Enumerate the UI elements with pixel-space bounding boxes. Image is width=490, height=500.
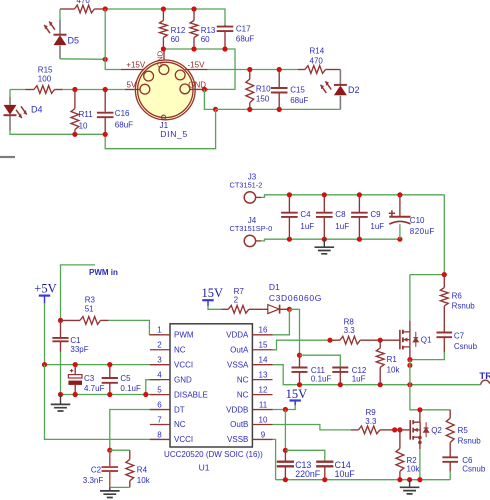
node junction top bus at 470	[103, 6, 108, 11]
pin lead Q2 source	[419, 438, 421, 450]
capacitor C11 0.1uF	[299, 355, 301, 367]
capacitor C1 33pF	[60, 320, 62, 337]
node junction C3 bottom	[73, 392, 78, 397]
node junction Q2 source dot1	[418, 436, 422, 440]
node junction C11 bottom	[297, 382, 302, 387]
svg-text:GND: GND	[156, 50, 165, 67]
node junction Q1 source TR	[407, 382, 412, 387]
svg-text:C15: C15	[290, 86, 305, 95]
svg-text:2: 2	[234, 295, 239, 304]
ground at C1	[60, 395, 62, 405]
svg-text:150: 150	[256, 94, 270, 103]
pin 8 VCCI	[150, 438, 170, 440]
node junction GND pin right	[202, 87, 207, 92]
svg-text:60: 60	[171, 35, 180, 44]
capacitor C8 1uF	[323, 195, 325, 213]
svg-text:VCCI: VCCI	[174, 435, 193, 444]
pin 5 DISABLE	[150, 394, 170, 396]
wire to +15V pin of J1	[105, 59, 121, 69]
node junction R2 top / gate Q2	[397, 427, 402, 432]
svg-text:NC: NC	[237, 390, 249, 399]
capacitor C6 Csnub	[442, 457, 458, 462]
pin 6 DT	[150, 409, 170, 411]
resistor R10 150	[249, 70, 251, 80]
resistor R6 Rsnub	[443, 275, 445, 288]
wire TR bus	[273, 365, 481, 385]
capacitor C9 1uF	[358, 195, 360, 213]
wire +15V top bus	[105, 9, 225, 26]
node junction R8/R1/gate Q1	[378, 338, 383, 343]
svg-text:PWM in: PWM in	[89, 268, 118, 277]
pin notch bottom J1	[162, 115, 166, 119]
node junction R10 top	[247, 67, 252, 72]
svg-text:1uF: 1uF	[335, 222, 349, 231]
node junction R13 bottom	[191, 46, 196, 51]
wire GND bus C1/C3/C5	[61, 380, 161, 395]
svg-text:NC: NC	[237, 375, 249, 384]
pin lead -15V J1	[185, 69, 208, 71]
wire bottom GND bus	[276, 479, 451, 481]
svg-text:1uF: 1uF	[370, 222, 384, 231]
node junction R9 right	[392, 427, 397, 432]
node junction Q1 source	[407, 357, 412, 362]
svg-text:C3: C3	[84, 374, 95, 383]
pin 1 PWM	[150, 334, 170, 336]
svg-text:11: 11	[259, 400, 268, 409]
svg-text:15V: 15V	[286, 387, 308, 401]
svg-text:CT3151SP-0: CT3151SP-0	[230, 224, 273, 233]
node junction C10 top	[397, 192, 402, 197]
pin 12 NC	[253, 394, 273, 396]
svg-text:R11: R11	[79, 110, 94, 119]
node junction +5V riser	[42, 362, 47, 367]
pin 13 NC	[253, 379, 273, 381]
svg-text:1uF: 1uF	[300, 222, 314, 231]
pin 16 VDDA	[253, 334, 273, 336]
svg-text:CT3151-2: CT3151-2	[230, 180, 263, 189]
transistor Q1	[400, 330, 418, 350]
svg-text:51: 51	[85, 304, 94, 313]
svg-text:C9: C9	[370, 210, 381, 219]
svg-text:Q1: Q1	[421, 336, 432, 345]
svg-text:0.1uF: 0.1uF	[120, 384, 141, 393]
svg-text:3.3: 3.3	[365, 417, 377, 426]
pin 7 NC	[150, 424, 170, 426]
node junction C3 top	[73, 362, 78, 367]
svg-text:U1: U1	[199, 463, 210, 473]
svg-text:68uF: 68uF	[236, 35, 254, 44]
svg-text:VSSA: VSSA	[227, 360, 249, 369]
svg-text:Csnub: Csnub	[462, 465, 486, 474]
LED D2	[339, 70, 341, 110]
wire J3 to cap bus top	[261, 195, 444, 198]
pin lead GND right J1	[190, 88, 208, 90]
pin lead Q2 drain	[419, 410, 421, 422]
pin 3 VCCI	[150, 364, 170, 366]
wire Q2 source to GND bus	[419, 449, 421, 480]
resistor R3 51	[58, 318, 63, 323]
node junction D1 cathode	[287, 307, 292, 312]
node junction R1 bottom	[378, 382, 383, 387]
pin circle upper-left +15V	[144, 71, 154, 81]
connector J4 CT3151SP-0	[244, 235, 255, 246]
svg-text:68uF: 68uF	[290, 96, 308, 105]
wire DT line	[110, 410, 160, 451]
node junction R2 bottom	[397, 477, 402, 482]
svg-text:33pF: 33pF	[70, 345, 88, 354]
ground at C2	[109, 487, 111, 491]
svg-text:8: 8	[157, 430, 162, 439]
pin 9 VSSB	[253, 438, 273, 440]
ground at bottom GND bus	[409, 480, 411, 488]
svg-text:R8: R8	[344, 317, 355, 326]
svg-text:100: 100	[38, 74, 52, 83]
svg-text:C7: C7	[454, 331, 465, 340]
node junction C10 bottom	[397, 237, 402, 242]
wire Q1 drain from R6 junction	[409, 275, 411, 321]
wire VCCI bus +5V	[45, 364, 161, 366]
node junction pin11 15V	[283, 407, 288, 412]
capacitor C3 4.7uF polarized	[74, 365, 76, 375]
svg-text:1uF: 1uF	[352, 375, 366, 384]
svg-text:Csnub: Csnub	[454, 342, 478, 351]
svg-text:68uF: 68uF	[115, 121, 133, 130]
node junction C16 top / 5V	[103, 87, 108, 92]
pin 1 circle top GND	[159, 65, 169, 75]
wire C13/C14 top link	[285, 450, 324, 461]
svg-text:9: 9	[261, 430, 266, 439]
pin lead +15V J1	[121, 69, 144, 71]
svg-text:C10: C10	[410, 216, 425, 225]
wire Q1 source to TR bus	[409, 360, 411, 385]
svg-text:D5: D5	[68, 36, 80, 46]
node junction C13 top	[283, 448, 288, 453]
pin 15 OutA	[253, 349, 273, 351]
wire D1 to C11/C12 top	[289, 309, 299, 355]
svg-text:15: 15	[259, 341, 268, 350]
svg-text:R14: R14	[310, 47, 325, 56]
svg-text:10uF: 10uF	[335, 469, 356, 479]
svg-text:R3: R3	[85, 295, 96, 304]
capacitor C5 0.1uF	[109, 365, 111, 378]
wire +5V down to pin8 VCCI	[45, 365, 161, 440]
svg-text:D2: D2	[348, 85, 360, 95]
pin lead Q1 source	[409, 347, 411, 360]
node junction C15 bottom	[277, 107, 282, 112]
svg-text:D4: D4	[31, 105, 43, 115]
capacitor C17 68uF	[224, 25, 226, 27]
node junction C13 bottom	[283, 477, 288, 482]
wire pin10 OutB to R9	[273, 425, 352, 430]
pin 4 GND	[150, 379, 170, 381]
svg-text:3.3: 3.3	[344, 326, 356, 335]
resistor R1 10k	[379, 340, 381, 348]
resistor R5 Rsnub	[449, 410, 451, 418]
svg-text:16: 16	[259, 326, 268, 335]
wire D5 to +15V pin	[60, 58, 105, 61]
svg-text:VDDA: VDDA	[226, 331, 249, 340]
capacitor C15 68uF	[278, 70, 280, 88]
svg-text:10k: 10k	[137, 476, 151, 485]
node junction DISABLE tie	[143, 392, 148, 397]
LED D4	[9, 90, 11, 98]
svg-text:R10: R10	[256, 84, 271, 93]
svg-text:C5: C5	[120, 374, 131, 383]
svg-text:6: 6	[157, 400, 162, 409]
wire lower GND bus to D2	[216, 108, 341, 110]
svg-text:4.7uF: 4.7uF	[84, 384, 105, 393]
resistor R4 10k	[110, 449, 130, 451]
wire C7 bottom to Q1 source	[410, 352, 444, 360]
capacitor C14 10uF	[316, 462, 333, 467]
wire pin15 OutA to R8	[273, 340, 331, 350]
svg-text:DISABLE: DISABLE	[174, 390, 208, 399]
svg-text:10k: 10k	[387, 365, 401, 374]
svg-text:R6: R6	[452, 291, 463, 300]
svg-text:820uF: 820uF	[410, 227, 435, 236]
svg-text:R13: R13	[201, 26, 216, 35]
node junction top bus R12	[161, 6, 166, 11]
pin lead gate Q1	[380, 339, 400, 341]
svg-text:-15V: -15V	[188, 61, 206, 70]
resistor R9 3.3	[351, 429, 358, 431]
wire cap bus right down to R6	[443, 195, 445, 275]
pin circle upper-right -15V	[175, 70, 185, 80]
svg-text:C3D06060G: C3D06060G	[269, 293, 322, 303]
svg-text:Rsnub: Rsnub	[458, 436, 482, 445]
svg-text:VSSB: VSSB	[227, 435, 248, 444]
svg-text:3: 3	[157, 356, 162, 365]
svg-text:15V: 15V	[202, 286, 224, 300]
svg-text:C17: C17	[236, 25, 251, 34]
node junction DT/C2/R4	[107, 448, 112, 453]
svg-text:10k: 10k	[407, 465, 421, 474]
wire D4 bottom to GND	[10, 130, 105, 134]
wire PWM in stub	[61, 265, 96, 321]
svg-text:7: 7	[157, 415, 162, 424]
svg-text:C16: C16	[115, 109, 130, 118]
svg-text:C4: C4	[300, 210, 311, 219]
svg-text:220nF: 220nF	[295, 469, 321, 479]
svg-text:4: 4	[157, 370, 162, 379]
svg-text:VCCI: VCCI	[174, 360, 193, 369]
connector J3 CT3151-2	[244, 192, 255, 203]
svg-text:2: 2	[157, 341, 162, 350]
node junction R12 bottom	[161, 46, 166, 51]
svg-text:DT: DT	[174, 405, 185, 414]
node junction C5 bottom	[107, 392, 112, 397]
svg-text:DIN_5: DIN_5	[160, 129, 188, 139]
wire 15V down to C13	[284, 410, 286, 451]
wire C11/C12 top link	[300, 355, 341, 367]
pin lead gate Q2	[395, 429, 411, 431]
svg-text:NC: NC	[174, 420, 186, 429]
node junction C4 bottom	[287, 237, 292, 242]
svg-text:R5: R5	[458, 426, 469, 435]
node junction C9 top	[357, 192, 362, 197]
wire Q2 drain from TR bus	[410, 385, 450, 410]
wire R3 to pin1 PWM	[109, 320, 161, 334]
pin circle right GND	[180, 84, 190, 94]
svg-text:R1: R1	[387, 355, 398, 364]
wire J4 to cap bus bottom	[261, 239, 400, 241]
node junction C16 bottom	[103, 132, 108, 137]
resistor R2 10k	[399, 430, 401, 449]
wire GND pin down to lower bus	[204, 89, 215, 109]
svg-text:C8: C8	[335, 210, 346, 219]
node junction top bus R13	[191, 6, 196, 11]
node junction C9 bottom	[357, 237, 362, 242]
connector J1 DIN_5 body	[135, 60, 195, 120]
node junction R6 top	[442, 272, 447, 277]
svg-text:Rsnub: Rsnub	[452, 301, 476, 310]
node junction C15 top	[277, 67, 282, 72]
wire riser to top bus	[104, 9, 106, 59]
resistor R13 60	[190, 21, 198, 38]
pin lead 5V J1	[125, 89, 140, 91]
node junction R11 top	[72, 87, 77, 92]
svg-text:13: 13	[259, 370, 268, 379]
wire D1 to pin16 VDDA	[273, 309, 290, 335]
svg-text:10: 10	[259, 415, 268, 424]
capacitor C13 220nF	[284, 450, 286, 461]
node junction C14 bottom	[322, 477, 327, 482]
node junction R10 bottom	[247, 107, 252, 112]
capacitor C2 3.3nF	[109, 450, 111, 467]
svg-text:5V: 5V	[127, 81, 137, 90]
wire GND jog under DIN	[105, 109, 215, 148]
wire GND bus upper	[163, 49, 235, 89]
pin circle left 5V	[140, 84, 150, 94]
node junction C11 top	[297, 353, 302, 358]
svg-text:OutA: OutA	[230, 345, 249, 354]
node junction lower GND bus	[213, 107, 218, 112]
node junction D5/+15V riser	[103, 57, 108, 62]
resistor R11 10	[74, 90, 76, 109]
resistor R15 100	[10, 89, 26, 91]
wire -15V bus	[208, 69, 298, 71]
node junction R8 left	[327, 338, 332, 343]
svg-text:UCC20520 (DW SOIC (16)): UCC20520 (DW SOIC (16))	[164, 450, 263, 459]
resistor R12 60	[160, 21, 168, 38]
svg-text:12: 12	[259, 385, 268, 394]
node junction Q2 drain	[417, 407, 422, 412]
diode D1 C3D06060G	[268, 305, 279, 314]
capacitor C10 820uF polarized	[399, 195, 401, 216]
svg-text:470: 470	[310, 57, 324, 66]
svg-text:+15V: +15V	[126, 61, 146, 70]
wire C2/R4 bottom	[110, 486, 130, 488]
svg-text:0.1uF: 0.1uF	[311, 375, 332, 384]
svg-text:PWM: PWM	[174, 331, 194, 340]
svg-text:C2: C2	[91, 465, 102, 474]
resistor R8 3.3	[330, 339, 340, 341]
svg-text:+5V: +5V	[34, 281, 56, 295]
sheet edge mark	[0, 156, 15, 158]
pin lead GND top of J1	[163, 49, 165, 60]
svg-text:C1: C1	[70, 336, 81, 345]
svg-text:10: 10	[79, 121, 88, 130]
svg-text:14: 14	[259, 356, 268, 365]
svg-text:R4: R4	[137, 465, 148, 474]
resistor R7 2	[222, 308, 229, 310]
op-amp U1 UCC20520 body	[170, 324, 252, 447]
svg-text:R9: R9	[366, 408, 377, 417]
pin 14 VSSA	[253, 364, 273, 366]
svg-text:5: 5	[157, 385, 162, 394]
wire C6 bottom to GND bus	[449, 471, 451, 480]
svg-text:VDDB: VDDB	[226, 405, 248, 414]
svg-text:1: 1	[157, 326, 162, 335]
wire pin9 VSSB down	[273, 439, 276, 479]
LED D5	[59, 9, 61, 20]
svg-text:D1: D1	[269, 282, 280, 292]
node junction C1/ground	[58, 392, 63, 397]
node junction Q2 source dot2	[418, 441, 422, 445]
node junction C8 bottom / ground	[322, 237, 327, 242]
node junction C5 top	[107, 362, 112, 367]
svg-text:NC: NC	[174, 345, 186, 354]
capacitor C12 1uF	[332, 368, 348, 372]
node junction ground stem	[407, 477, 412, 482]
capacitor C16 68uF	[104, 90, 106, 112]
svg-text:3.3nF: 3.3nF	[83, 476, 104, 485]
node junction C8 top	[322, 192, 327, 197]
node junction C4 top	[287, 192, 292, 197]
transistor Q2	[410, 420, 428, 440]
node junction C12 bottom	[338, 382, 343, 387]
node junction Q2 source bottom	[417, 477, 422, 482]
svg-text:R12: R12	[171, 26, 186, 35]
svg-text:GND: GND	[174, 375, 192, 384]
svg-text:OutB: OutB	[230, 420, 248, 429]
node junction Q1 source 2	[407, 363, 412, 368]
pin 10 OutB	[253, 424, 273, 426]
pin 2 NC	[150, 349, 170, 351]
node junction R11 bottom	[72, 132, 77, 137]
wire R6 junction link	[410, 274, 444, 276]
svg-text:60: 60	[201, 35, 210, 44]
resistor R14 470	[298, 69, 305, 71]
svg-text:R15: R15	[38, 65, 53, 74]
node junction C17 bottom	[222, 46, 227, 51]
capacitor C4 1uF	[288, 195, 290, 213]
ground at C8	[323, 239, 325, 247]
offpage connector TR	[481, 380, 490, 385]
svg-text:Q2: Q2	[431, 426, 442, 435]
pin 11 VDDB	[253, 409, 273, 411]
capacitor C7 Csnub	[437, 333, 453, 338]
